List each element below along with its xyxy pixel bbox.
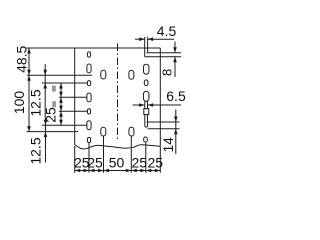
right column large oval 2 <box>143 91 149 101</box>
part left edge <box>74 48 76 145</box>
arrowhead left at 4.5 dim <box>148 37 154 41</box>
dimension 12.5 upper line <box>44 64 46 118</box>
dimension 25 chain line <box>60 83 62 125</box>
left column hole r1 small oval <box>87 52 90 57</box>
column2 top oval <box>101 70 106 79</box>
right column neck left wall <box>144 101 146 108</box>
dimension 8 line upper <box>174 42 176 53</box>
arrowhead down at y124.6 x45.5 <box>44 120 48 126</box>
row extension line y=75 <box>27 74 92 76</box>
arrowheads 25 chain x61 <box>59 83 63 89</box>
arrowhead left at 6.5 dim <box>148 103 154 107</box>
svg-text:8: 8 <box>160 69 175 76</box>
dimension 12.5 lower line <box>45 118 47 163</box>
dimension 4.5 line right part <box>148 38 174 40</box>
right column neck right wall <box>147 101 149 108</box>
equal-mark gray square 1 <box>52 86 56 92</box>
svg-text:14: 14 <box>161 137 176 153</box>
bottom extension x=131.3 <box>130 136 132 173</box>
break wave line <box>75 145 161 149</box>
bottom dimension line <box>75 170 161 172</box>
part right edge <box>159 48 161 146</box>
dimension 48.5/100 line <box>28 48 30 132</box>
svg-text:50: 50 <box>109 154 125 170</box>
arrowhead up at 14 dim <box>174 129 178 135</box>
bottom extension x=74.7 <box>74 146 76 173</box>
arrowhead up at y48 x29 <box>27 48 31 54</box>
vertical centerline (dash-dot) <box>117 44 119 141</box>
bottom-right step upper edge with 14 extension <box>147 121 180 123</box>
equal-mark gray square 2 <box>52 101 56 107</box>
svg-text:12.5: 12.5 <box>28 137 44 164</box>
bottom row extension line y=131.6 <box>27 131 79 133</box>
dimension 8 line lower <box>174 57 176 77</box>
dimension 14 line <box>175 110 177 155</box>
svg-text:4.5: 4.5 <box>157 23 177 39</box>
bottom dim arrowheads <box>75 169 81 173</box>
left column hole r3 small oval <box>87 81 90 86</box>
part top edge with 48.5 extension <box>27 47 161 49</box>
arrowhead down at 8 dim <box>173 47 177 53</box>
arrowhead right at 6.5 dim <box>139 103 145 107</box>
arrowhead down at y75 x46 <box>43 70 47 76</box>
arrowhead right at 4.5 dim <box>139 37 145 41</box>
extension line y=82 <box>42 82 87 84</box>
dimension 6.5 line left part <box>133 104 145 106</box>
arrowhead up at y82 x46 <box>43 83 47 89</box>
column2 bottom oval <box>101 127 106 136</box>
dimension 4.5 line left part <box>135 38 145 40</box>
bottom extension x=103.5 <box>103 136 105 173</box>
top slot right wall with 4.5 extension <box>147 37 149 53</box>
svg-text:12.5: 12.5 <box>28 89 44 116</box>
svg-text:6.5: 6.5 <box>166 88 186 104</box>
arrowhead down at 14 dim <box>174 117 178 123</box>
left column hole r4 large oval <box>87 93 91 102</box>
svg-text:48.5: 48.5 <box>14 45 30 72</box>
right column large oval 1 <box>143 64 149 74</box>
bottom extension x=160.3 <box>159 147 161 173</box>
svg-text:25: 25 <box>132 154 148 170</box>
arrowhead down at y131.6 x29 <box>27 126 31 132</box>
left column hole r6 large oval <box>87 121 91 130</box>
top slot bottom with 8 extension <box>145 56 181 58</box>
svg-text:100: 100 <box>11 91 27 115</box>
right column square hole <box>144 109 149 115</box>
arrowheads at y75 x29 <box>27 70 31 76</box>
extension line y=110.8 <box>59 110 87 112</box>
svg-text:25: 25 <box>148 154 164 170</box>
svg-text:25: 25 <box>42 107 58 123</box>
right column bottom small oval <box>144 137 148 142</box>
svg-text:25: 25 <box>87 154 103 170</box>
top slot left wall with 4.5 extension <box>144 37 146 57</box>
left column hole r2 large oval <box>87 64 91 73</box>
right column small oval <box>144 80 148 86</box>
extension line y=96.4 <box>59 96 87 98</box>
dimension 6.5 line right part <box>148 104 181 106</box>
column3 top oval <box>129 70 134 79</box>
left column hole r7 small oval <box>87 137 90 142</box>
bottom extension x=89 <box>88 143 90 173</box>
arrowhead up at 8 dim <box>173 57 177 63</box>
top-right tab bottom edge with 8 extension <box>147 52 182 54</box>
bottom extension x=145.8 <box>145 142 147 173</box>
left column hole r5 small oval <box>87 109 90 114</box>
right column lower slot <box>145 115 148 128</box>
bottom-right step lower edge with 14 extension <box>148 128 180 130</box>
arrowhead up at y131.6 x45.5 <box>44 132 48 138</box>
column3 bottom oval <box>129 127 134 136</box>
extension line y=124.6 <box>42 124 87 126</box>
